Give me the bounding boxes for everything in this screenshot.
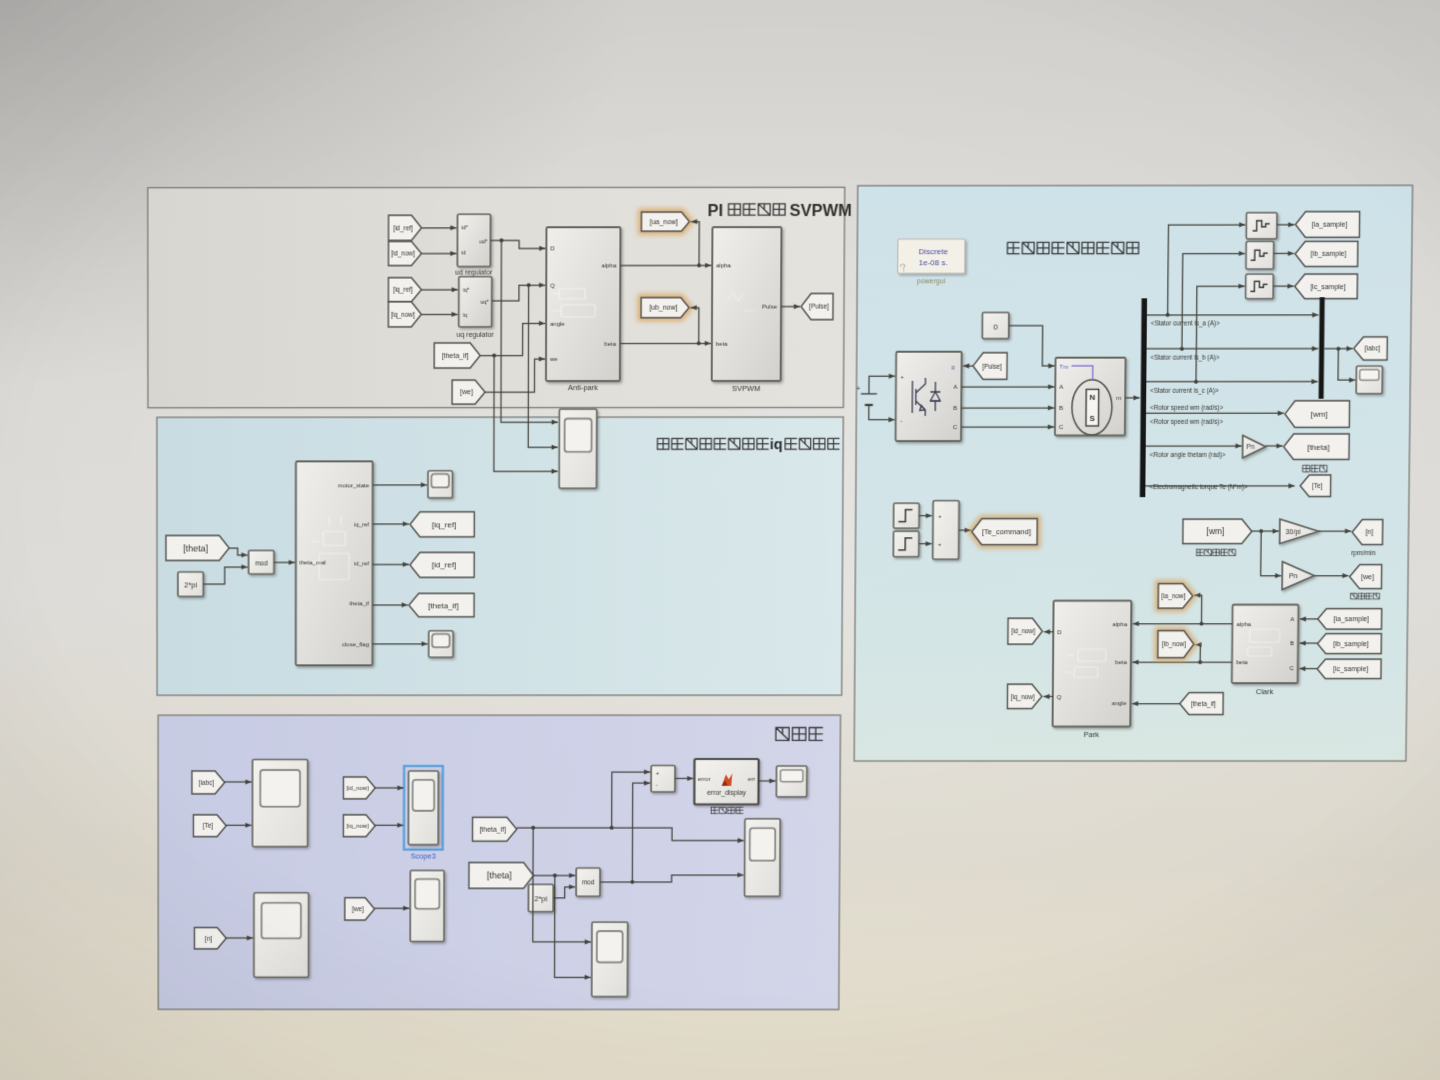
junction mux out <box>1336 347 1340 351</box>
wire inverter C to PMSM <box>961 426 1054 428</box>
wire is_b to sample hold 2 <box>1182 253 1245 348</box>
wire alpha up to ia_now <box>1194 595 1202 623</box>
goto tag [theta] region4 <box>1283 434 1349 460</box>
svg-text:0: 0 <box>993 323 998 332</box>
svg-text:+: + <box>938 515 942 521</box>
svg-text:Discrete: Discrete <box>919 248 949 257</box>
goto tag [iabc] <box>1354 337 1388 360</box>
from tag [theta_if] region3 <box>473 817 517 841</box>
wire ib_sample to Clark B <box>1300 642 1318 644</box>
from tag [theta] region2 <box>166 535 229 560</box>
goto tag [ub_now] <box>641 298 689 318</box>
svg-text:[ic_sample]: [ic_sample] <box>1333 666 1368 673</box>
svg-text:[ib_now]: [ib_now] <box>1162 642 1186 649</box>
label electrical angle <box>1303 465 1327 472</box>
wire 30/pi to n <box>1319 530 1351 532</box>
svg-text:[iabc]: [iabc] <box>199 780 215 787</box>
wire beta up to ib_now <box>1195 645 1200 662</box>
wire Clark beta to Park beta <box>1132 661 1232 663</box>
svg-text:[Te_command]: [Te_command] <box>982 527 1031 536</box>
goto tag [Te] region4 <box>1300 475 1331 497</box>
svg-text:Anti-park: Anti-park <box>568 384 598 393</box>
mux bar <box>1319 297 1325 399</box>
svg-text:[Pulse]: [Pulse] <box>982 363 1002 370</box>
svg-text:err: err <box>748 777 755 783</box>
svg-text:[we]: [we] <box>1361 574 1374 581</box>
svg-text:A: A <box>1290 618 1294 624</box>
svg-text:[id_ref]: [id_ref] <box>432 561 456 570</box>
svg-text:mod: mod <box>255 560 268 567</box>
wire mod out region3 <box>600 875 744 882</box>
wire theta_if run region3 <box>517 828 744 841</box>
svg-text:A: A <box>953 385 957 391</box>
block virtual rotor subsystem <box>296 461 373 665</box>
wire sum to Te_command <box>959 529 971 531</box>
wire theta_if branch to Scope1 input3 <box>494 355 558 471</box>
dc voltage source <box>861 394 877 405</box>
goto tag [n] <box>1352 520 1383 545</box>
scope Scope1 three inputs <box>559 409 597 488</box>
from tag [iabc] region3 <box>192 771 225 794</box>
svg-text:angle: angle <box>550 322 565 328</box>
wire dc+ to inverter <box>869 376 895 394</box>
wire alpha branch to [ua_now] <box>691 222 700 266</box>
wire close_flag to scope <box>372 643 427 645</box>
svg-text:[iabc]: [iabc] <box>1365 346 1381 353</box>
wire id_now to ud regulator <box>421 252 456 254</box>
block inverter bridge <box>896 352 962 441</box>
scope n <box>254 893 309 977</box>
wire ic_sample to Clark C <box>1299 668 1317 670</box>
wire mux to iabc <box>1324 348 1353 350</box>
wire bus is_c <box>1146 381 1317 383</box>
wire Park Q to iq_now <box>1043 696 1052 698</box>
svg-text:iq: iq <box>770 437 783 453</box>
svg-text:[theta]: [theta] <box>1307 443 1329 452</box>
svg-text:[Te]: [Te] <box>203 823 214 830</box>
wire zoh1 to ia_sample <box>1277 224 1295 226</box>
svg-text:[iq_ref]: [iq_ref] <box>432 520 456 529</box>
junction beta region4 <box>1198 660 1202 664</box>
svg-text:id_ref: id_ref <box>354 561 369 567</box>
svg-text:+: + <box>938 543 942 549</box>
goto tag [wm] <box>1285 401 1350 428</box>
wire mux to display <box>1338 349 1356 380</box>
svg-text:N: N <box>1089 393 1095 402</box>
wire Pn to theta <box>1266 445 1283 447</box>
block powergui <box>898 239 965 273</box>
svg-text:30/pi: 30/pi <box>1285 529 1301 536</box>
svg-text:<Electromagnetic torque Te (N*: <Electromagnetic torque Te (N*m)> <box>1149 484 1248 491</box>
label electrical angular speed <box>1351 593 1380 599</box>
svg-text:Pulse: Pulse <box>762 305 778 311</box>
wire id_now to Scope3 <box>375 787 404 789</box>
wire inverter B to PMSM <box>961 407 1054 409</box>
wire id_ref to goto <box>373 563 409 565</box>
wire Tm internal <box>1071 366 1093 380</box>
svg-text:Q: Q <box>550 284 555 290</box>
svg-text:Pn: Pn <box>1289 573 1298 580</box>
goto tag [ia_sample] <box>1295 212 1359 238</box>
svg-text:2*pi: 2*pi <box>184 581 197 590</box>
goto tag [Pulse] <box>801 293 833 319</box>
goto tag [ib_sample] <box>1295 241 1358 266</box>
svg-text:[ua_now]: [ua_now] <box>650 219 678 226</box>
wire bus rotor speed wm <box>1146 412 1284 414</box>
wire step1 to sum <box>919 515 932 517</box>
wire PMSM m to bus selector <box>1125 397 1139 399</box>
from tag [wm] mechanical speed <box>1183 519 1252 544</box>
svg-text:alpha: alpha <box>1236 622 1251 628</box>
matlab function error_display <box>694 759 758 804</box>
svg-text:C: C <box>953 426 958 432</box>
block uq regulator <box>459 277 492 327</box>
svg-text:2*pi: 2*pi <box>534 895 547 904</box>
goto tag [iq_now] region4 <box>1007 684 1042 708</box>
svg-text:error_display: error_display <box>707 790 747 797</box>
junction is_a <box>1166 313 1170 317</box>
block mod region3 <box>576 868 600 896</box>
junction mod out <box>630 880 634 884</box>
svg-text:beta: beta <box>1115 661 1127 667</box>
svg-text:<Rotor angle thetam (rad)>: <Rotor angle thetam (rad)> <box>1150 452 1226 459</box>
svg-text:[id_now]: [id_now] <box>346 786 368 792</box>
svg-text:C: C <box>1059 425 1064 431</box>
svg-text:D: D <box>1057 631 1062 637</box>
wire Pn to we <box>1314 575 1348 577</box>
sum block region3 <box>651 765 675 791</box>
sample hold block 1 <box>1246 213 1277 239</box>
svg-text:id: id <box>461 251 465 257</box>
wire [Pulse] to inverter g <box>963 365 973 367</box>
svg-text:+: + <box>656 771 660 777</box>
gain Pn rotor angle <box>1243 435 1266 458</box>
title virtual rotor generation and iq current reference <box>657 438 768 449</box>
svg-text:[id_now]: [id_now] <box>1011 629 1035 636</box>
svg-text:beta: beta <box>1236 661 1248 667</box>
svg-text:angle: angle <box>1112 701 1127 707</box>
svg-text:alpha: alpha <box>1113 623 1128 629</box>
title electromechanical model & sampling <box>1007 242 1138 253</box>
goto tag [ib_now] <box>1158 631 1194 658</box>
sample hold block 3 <box>1246 274 1274 299</box>
junction is_c <box>1194 380 1198 384</box>
block PMSM machine <box>1055 358 1126 436</box>
svg-text:S: S <box>1090 414 1096 423</box>
svg-text:Clark: Clark <box>1256 687 1274 696</box>
step block 2 <box>893 531 919 557</box>
svg-text:[ib_sample]: [ib_sample] <box>1311 251 1347 258</box>
junction beta <box>697 341 701 345</box>
goto tag [ua_now] <box>641 212 689 231</box>
wire mod to theta_real <box>274 561 295 563</box>
svg-text:[iq_now]: [iq_now] <box>391 312 415 319</box>
svg-text:beta: beta <box>716 342 728 348</box>
svg-text:id*: id* <box>461 226 468 232</box>
from tag [iq_now] <box>388 302 421 327</box>
svg-text:<Stator current is_c (A)>: <Stator current is_c (A)> <box>1150 387 1219 394</box>
svg-text:PI: PI <box>707 201 723 220</box>
wire 2*pi to mod region3 <box>553 887 575 898</box>
junction alpha region4 <box>1199 622 1203 626</box>
svg-text:Tm: Tm <box>1059 365 1068 371</box>
svg-text:A: A <box>1059 385 1063 391</box>
svg-text:<Stator current is_a (A)>: <Stator current is_a (A)> <box>1151 321 1220 328</box>
svg-text:-: - <box>656 783 658 789</box>
svg-text:Park: Park <box>1084 731 1100 740</box>
svg-text:[id_ref]: [id_ref] <box>393 225 413 232</box>
wire wm to 30/pi <box>1252 530 1279 532</box>
svg-text:D: D <box>550 247 555 253</box>
sum block Te_command <box>933 501 959 560</box>
wire ud* to Anti-park D <box>490 240 545 248</box>
wire bus rotor angle <box>1146 445 1242 447</box>
block ud regulator <box>457 214 490 266</box>
wire error_display to display <box>759 780 776 782</box>
svg-text:motor_state: motor_state <box>338 483 370 489</box>
wire iq_ref to uq regulator <box>421 289 457 291</box>
wire inverter A to PMSM <box>961 386 1054 388</box>
svg-text:close_flag: close_flag <box>342 642 369 648</box>
wire n to scope <box>226 937 253 939</box>
region observation window area <box>158 715 840 1009</box>
wire constant 0 to Tm <box>1009 326 1055 366</box>
svg-text:[ia_now]: [ia_now] <box>1161 593 1185 600</box>
wire theta_if to goto <box>373 604 408 606</box>
block Anti-park <box>546 227 620 381</box>
wire beta to SVPWM <box>620 342 711 344</box>
wire is_c to sample hold 3 <box>1196 286 1245 381</box>
svg-text:[id_now]: [id_now] <box>391 251 415 258</box>
svg-text:[theta_if]: [theta_if] <box>428 601 459 610</box>
junction theta_if <box>492 353 496 357</box>
goto tag [id_ref] <box>410 552 474 577</box>
svg-text:[n]: [n] <box>1365 530 1373 537</box>
svg-text:Pn: Pn <box>1246 444 1254 451</box>
goto tag [id_now] region4 <box>1008 618 1043 644</box>
svg-text:beta: beta <box>604 342 616 348</box>
svg-text:B: B <box>953 406 957 412</box>
wire theta_if down to lower scope <box>533 828 591 942</box>
goto tag [theta_if] region2 <box>409 593 474 616</box>
svg-text:+: + <box>857 386 861 393</box>
svg-text:+: + <box>900 375 904 381</box>
svg-text:mod: mod <box>582 880 595 887</box>
svg-text:[Te]: [Te] <box>1312 483 1323 490</box>
wire iabc to scope <box>224 781 251 783</box>
constant 0 <box>982 312 1009 338</box>
wire theta_if up to sum <box>612 772 651 828</box>
svg-text:<Rotor speed wm (rad/s)>: <Rotor speed wm (rad/s)> <box>1150 405 1223 412</box>
junction theta region3 <box>553 873 557 877</box>
label mechanical angular speed <box>1197 549 1236 555</box>
block Park transform <box>1053 601 1132 727</box>
from tag [theta] region3 <box>469 863 534 889</box>
wire bus is_b <box>1147 348 1319 350</box>
wire Te to scope <box>226 824 252 826</box>
block Clark transform <box>1232 605 1299 683</box>
block mod region2 <box>249 550 274 574</box>
svg-text:B: B <box>1290 642 1294 648</box>
svg-text:<Stator current is_b (A)>: <Stator current is_b (A)> <box>1151 355 1220 362</box>
region PI controller & SVPWM area <box>148 187 845 408</box>
svg-text:<Rotor speed wm (rad/s)>: <Rotor speed wm (rad/s)> <box>1150 419 1223 426</box>
wire theta_if to Anti-park angle <box>480 323 545 355</box>
scope theta lower <box>592 922 628 996</box>
wire Park D to id_now <box>1044 631 1053 633</box>
wire dc- to inverter <box>869 405 895 420</box>
from tag [theta_if] <box>434 343 480 368</box>
scope we region3 <box>410 870 444 941</box>
wire iq_now to uq regulator <box>421 313 457 315</box>
svg-text:powergui: powergui <box>917 278 946 285</box>
region virtual rotor / iq reference area <box>157 417 843 695</box>
from tag [ic_sample] <box>1317 659 1381 678</box>
constant 2*pi region2 <box>178 572 203 596</box>
svg-text:1e-08 s.: 1e-08 s. <box>919 259 948 268</box>
from tag [we] region3 <box>345 898 375 920</box>
wire ia_sample to Clark A <box>1300 618 1318 620</box>
wire sum to error_display <box>675 777 693 779</box>
scope Scope3 selected <box>404 766 443 850</box>
svg-text:[theta_if]: [theta_if] <box>479 827 506 834</box>
wire bus is_a <box>1147 314 1319 316</box>
svg-text:iq*: iq* <box>463 288 470 294</box>
wire mod up to sum <box>632 783 650 882</box>
wire we to scope region3 <box>375 907 410 909</box>
constant 2*pi region3 <box>528 884 553 911</box>
title observation window <box>776 728 823 741</box>
wire theta to mod <box>229 548 247 555</box>
svg-text:SVPWM: SVPWM <box>732 384 760 393</box>
goto tag [iq_ref] <box>410 512 474 537</box>
scope iabc/Te <box>252 760 307 847</box>
goto tag [Te_command] <box>972 519 1038 545</box>
svg-text:[wm]: [wm] <box>1311 410 1328 419</box>
svg-text:theta_if: theta_if <box>349 602 369 608</box>
svg-text:[we]: [we] <box>460 390 473 397</box>
svg-text:[theta_if]: [theta_if] <box>442 353 469 360</box>
goto tag [ic_sample] <box>1295 274 1358 299</box>
wire theta to mod region3 <box>534 874 576 876</box>
region electromechanical model & sampling area <box>854 185 1412 761</box>
from tag [iq_now] region3 <box>343 815 375 837</box>
junction is_b <box>1180 347 1184 351</box>
wire iq_ref to goto <box>373 523 409 525</box>
svg-text:C: C <box>1289 667 1294 673</box>
sample hold block 2 <box>1246 241 1274 269</box>
from tag [ib_sample] <box>1317 634 1381 654</box>
wire motor_state to scope <box>373 484 427 486</box>
svg-text:[wm]: [wm] <box>1206 526 1224 536</box>
from tag [n] region3 <box>194 928 226 949</box>
block SVPWM <box>712 227 782 381</box>
svg-text:B: B <box>1059 406 1063 412</box>
wire iq_now to Scope3 <box>375 824 404 826</box>
svg-text:uq*: uq* <box>481 300 490 306</box>
svg-text:SVPWM: SVPWM <box>790 201 852 220</box>
svg-text:[ia_sample]: [ia_sample] <box>1312 222 1348 229</box>
junction ud* <box>499 238 503 242</box>
junction theta_if A <box>531 826 535 830</box>
wire bus torque Te <box>1145 485 1294 487</box>
svg-text:error: error <box>698 777 711 783</box>
from tag [we] <box>452 380 485 404</box>
wire is_a to sample hold 1 <box>1168 225 1246 315</box>
svg-text:iq: iq <box>463 313 467 319</box>
svg-text:ud*: ud* <box>479 239 488 245</box>
wire wm down to Pn <box>1261 531 1282 576</box>
svg-text:[iq_now]: [iq_now] <box>1011 694 1035 701</box>
svg-text:-: - <box>900 419 902 425</box>
svg-text:g: g <box>951 365 954 371</box>
svg-text:Q: Q <box>1057 695 1062 701</box>
wire id_ref to ud regulator <box>422 227 457 229</box>
wire zoh3 to ic_sample <box>1273 285 1294 287</box>
junction theta_if B <box>610 826 614 830</box>
display block region3 <box>776 766 807 797</box>
wire we to Anti-park we <box>485 359 545 392</box>
from tag [id_now] <box>388 241 421 265</box>
svg-text:we: we <box>549 357 558 363</box>
junction alpha <box>697 263 701 267</box>
wire theta down to lower scope <box>555 875 592 977</box>
from tag [id_now] region3 <box>343 777 375 799</box>
wire beta branch to [ub_now] <box>690 308 698 344</box>
step block 1 <box>894 503 920 528</box>
from tag [theta_if] region4 <box>1180 693 1224 715</box>
bus selector bar <box>1140 298 1147 497</box>
svg-text:[n]: [n] <box>205 936 212 943</box>
svg-text:[Pulse]: [Pulse] <box>809 304 829 311</box>
svg-text:alpha: alpha <box>602 264 617 270</box>
wire uq* branch to Scope1 input2 <box>528 285 558 447</box>
scope close_flag <box>429 631 453 657</box>
svg-text:[iq_now]: [iq_now] <box>346 824 368 830</box>
goto tag [ia_now] <box>1158 584 1193 609</box>
svg-text:m: m <box>1116 396 1121 402</box>
wire alpha to SVPWM <box>620 264 711 266</box>
wire 2*pi to mod <box>203 567 247 584</box>
from tag [id_ref] <box>389 215 422 240</box>
from tag [iq_ref] <box>388 278 421 302</box>
wire SVPWM Pulse to [Pulse] <box>781 306 800 308</box>
svg-text:[ub_now]: [ub_now] <box>649 305 677 312</box>
svg-text:[iq_ref]: [iq_ref] <box>393 287 413 294</box>
goto tag [we] region4 <box>1350 565 1382 589</box>
wire uq* to Anti-park Q <box>492 285 545 301</box>
display block region4 <box>1356 366 1382 394</box>
scope motor_state <box>428 471 452 498</box>
from tag [ia_sample] <box>1318 609 1382 630</box>
gain Pn speed <box>1282 562 1314 590</box>
svg-text:[ia_sample]: [ia_sample] <box>1334 617 1370 624</box>
svg-text:[theta_if]: [theta_if] <box>1191 701 1216 708</box>
svg-text:rpm/min: rpm/min <box>1351 550 1376 557</box>
svg-text:Scope3: Scope3 <box>411 852 436 861</box>
junction wm <box>1259 529 1263 533</box>
gain 30/pi <box>1280 519 1319 544</box>
wire ud* branch to Scope1 input1 <box>501 240 558 422</box>
junction uq* <box>527 283 531 287</box>
svg-text:[ic_sample]: [ic_sample] <box>1310 284 1345 291</box>
svg-text:[theta]: [theta] <box>183 543 208 553</box>
svg-text:iq_ref: iq_ref <box>354 522 369 528</box>
scope theta_if/mod comparison <box>745 819 781 897</box>
svg-text:[theta]: [theta] <box>487 871 512 881</box>
wire Clark alpha to Park alpha <box>1133 623 1233 625</box>
from tag [Te] region3 <box>193 815 226 837</box>
